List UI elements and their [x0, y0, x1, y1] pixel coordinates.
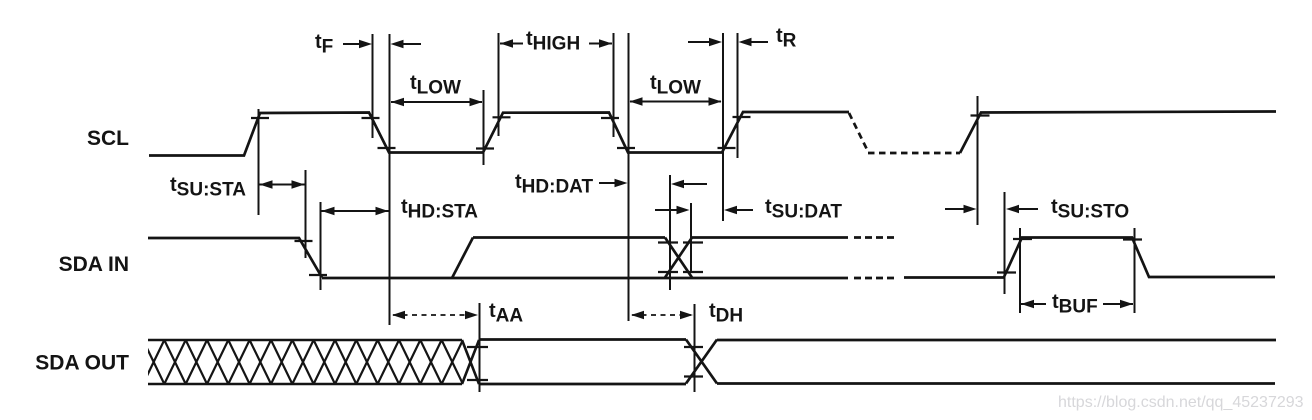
arrowhead tSU:DAT left: [724, 206, 737, 214]
arrow tR line right: [749, 41, 768, 43]
marker line SCL rise3 end (tR right): [737, 33, 739, 158]
tick SCL fall2 bottom: [617, 147, 635, 149]
arrowhead tBUF right: [1120, 300, 1133, 308]
arrow tF line: [343, 43, 360, 45]
serifs SDA IN X: [658, 243, 703, 273]
SCL dashed falling edge: [849, 113, 868, 152]
arrowhead tHD:DAT right: [615, 179, 628, 187]
svg-text:https://blog.csdn.net/qq_45237: https://blog.csdn.net/qq_45237293: [1058, 394, 1304, 411]
tick SCL rise2 top: [493, 116, 511, 118]
svg-text:tSU:DAT: tSU:DAT: [765, 196, 842, 223]
svg-text:tHD:DAT: tHD:DAT: [515, 171, 593, 198]
tick SCL rise3 bottom: [718, 147, 736, 149]
arrow tSU:STO line left: [945, 208, 965, 210]
marker line SDA X end (tSU:DAT left): [690, 203, 692, 273]
SCL waveform solid: [149, 112, 849, 156]
svg-text:tR: tR: [776, 25, 797, 52]
arrow tHD:DAT line: [599, 182, 615, 184]
arrowhead tLOW2 right: [709, 97, 722, 105]
arrowhead tF right: [359, 40, 372, 48]
svg-text:tHIGH: tHIGH: [526, 28, 580, 55]
arrow tLOW1 line: [391, 101, 482, 103]
arrowhead tSU:STA left: [260, 180, 273, 188]
SDA IN high rail: [473, 236, 665, 239]
svg-text:tLOW: tLOW: [410, 72, 461, 99]
SDA IN stop pulse: [1004, 238, 1275, 278]
svg-text:tBUF: tBUF: [1052, 291, 1098, 318]
arrow tHD:DAT opposing line: [682, 183, 707, 185]
SDA OUT crosshatch diagonals: [143, 340, 484, 384]
tick SCL fall1 bottom: [378, 147, 396, 149]
marker line tHIGH right: [613, 33, 615, 137]
tick SCL rise3 top: [733, 116, 751, 118]
arrowhead tR left: [739, 38, 752, 46]
arrowhead tDH left: [631, 311, 644, 319]
marker line SDA fall start (tSU:STA right): [305, 170, 307, 258]
marker line SDA low (tHD:STA left): [320, 202, 322, 290]
arrowhead tSU:DAT right: [677, 206, 690, 214]
arrowhead tDH right: [680, 311, 693, 319]
tick SDA fall right top: [1123, 238, 1142, 240]
arrowhead tSU:STA right: [292, 180, 305, 188]
arrow tSU:STA line: [260, 184, 306, 186]
arrow tAA dashed line: [393, 314, 477, 316]
tick SCL rise2 bottom: [476, 147, 494, 149]
marker line SDA rise (tSU:STO right): [1004, 192, 1006, 294]
svg-text:tAA: tAA: [489, 300, 523, 327]
arrowhead tLOW1 right: [470, 98, 483, 106]
arrowhead tHD:DAT-pair left: [671, 180, 684, 188]
marker line SCL rise1 (tSU:STA left): [258, 109, 260, 215]
svg-text:SDA OUT: SDA OUT: [35, 352, 129, 375]
arrow tLOW2 line: [630, 101, 721, 103]
marker line tBUF left: [1019, 228, 1021, 313]
marker line tDH right: [694, 304, 696, 392]
marker line tBUF right: [1134, 228, 1136, 313]
SCL dashed low segment: [868, 152, 960, 155]
svg-text:tLOW: tLOW: [650, 72, 701, 99]
SDA IN rising edge (data): [452, 238, 473, 279]
arrowhead tHIGH left: [500, 39, 513, 47]
arrowhead tAA left: [392, 311, 405, 319]
SDA OUT valid band middle: [479, 340, 686, 385]
tick SDA rise right top: [1013, 238, 1032, 240]
marker line SCL rise5 (tSU:STO left): [977, 96, 979, 225]
svg-text:SDA IN: SDA IN: [59, 253, 129, 276]
arrow tR line left: [688, 41, 711, 43]
tick SCL rise5 top: [971, 114, 990, 116]
tick SCL fall1 top: [362, 117, 380, 119]
arrowhead tR right: [709, 38, 722, 46]
arrow tDH dashed line: [632, 314, 691, 316]
arrowhead tHD:STA left: [322, 207, 335, 215]
marker line SCL fall1 start (tF): [372, 34, 374, 138]
arrowhead tHIGH right: [599, 39, 612, 47]
SDA OUT crosshatch top line: [148, 339, 462, 342]
tick SDA rise right bottom: [997, 271, 1016, 273]
arrowhead tSU:STO right: [964, 205, 977, 213]
svg-text:tHD:STA: tHD:STA: [401, 196, 478, 223]
SDA IN high rail after X: [692, 236, 848, 239]
tick SDA fall bottom: [309, 274, 327, 276]
svg-text:tF: tF: [315, 31, 333, 58]
arrow tHIGH line: [500, 43, 612, 45]
arrowhead tBUF left: [1021, 300, 1034, 308]
arrowhead tSU:STO left: [1006, 205, 1019, 213]
SDA IN low rail: [322, 277, 848, 280]
svg-text:tDH: tDH: [709, 300, 743, 327]
marker bar tLOW1 right: [483, 90, 485, 165]
arrow tBUF line: [1021, 303, 1133, 305]
tick SDA fall top: [295, 240, 313, 242]
svg-text:SCL: SCL: [87, 127, 129, 150]
SDA IN transition X: [665, 238, 692, 278]
SDA OUT transition X at tAA: [462, 340, 479, 384]
arrowhead tHD:STA right: [376, 207, 389, 215]
arrow tHD:STA line: [322, 210, 389, 212]
svg-text:tSU:STO: tSU:STO: [1051, 196, 1129, 223]
tick SCL fall2 top: [601, 117, 619, 119]
serifs SDA OUT X at tDH: [684, 347, 703, 377]
arrowhead tAA right: [465, 311, 478, 319]
arrowhead tF-pair left: [391, 40, 404, 48]
marker line SCL rise3 start (tR left): [722, 33, 724, 221]
arrow tSU:DAT line left: [655, 209, 678, 211]
SDA IN dashed rails: [854, 238, 896, 279]
serifs SDA OUT X at tAA: [467, 347, 488, 380]
arrowhead tLOW2 left: [630, 97, 643, 105]
SDA IN high segment left: [148, 238, 322, 278]
SDA IN low solid right: [904, 276, 1004, 279]
svg-text:tSU:STA: tSU:STA: [170, 174, 246, 201]
marker line tHIGH left: [498, 33, 500, 136]
SDA OUT crosshatch bottom line: [148, 383, 462, 386]
marker line SDA X start (tHD:DAT right): [669, 175, 671, 290]
marker line SCL fall2 end (long): [628, 33, 630, 321]
marker line tAA right: [479, 303, 481, 392]
arrowhead tLOW1 left: [391, 98, 404, 106]
tick SCL rise1 top: [251, 117, 269, 119]
SDA OUT transition X at tDH: [686, 340, 717, 384]
marker line SCL fall1 end (long): [389, 34, 391, 325]
arrow tF opposing line: [402, 43, 421, 45]
SDA OUT valid band right: [717, 340, 1276, 384]
SCL rising edge 5 and right high segment: [960, 112, 1276, 154]
arrow tSU:STO line right: [1017, 208, 1038, 210]
arrow tSU:DAT line right: [735, 209, 753, 211]
